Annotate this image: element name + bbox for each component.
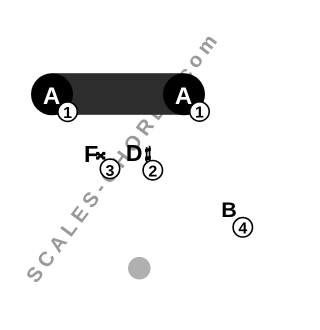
note circle A (right) <box>163 73 205 115</box>
sharp sign <box>145 146 151 163</box>
svg-text:1: 1 <box>195 105 204 122</box>
finger badge 2 <box>143 161 162 181</box>
note circle A (left) <box>31 73 73 115</box>
double sharp symbol (x) <box>96 152 105 160</box>
svg-text:D: D <box>126 140 143 166</box>
barre bar fret 1 <box>52 73 184 115</box>
svg-text:3: 3 <box>106 163 115 180</box>
svg-text:A: A <box>43 83 60 110</box>
finger badge 3 <box>100 159 119 180</box>
svg-text:4: 4 <box>238 221 247 238</box>
guitar chord diagram <box>0 0 255 330</box>
finger badge 4 <box>233 218 252 238</box>
svg-text:1: 1 <box>63 105 72 122</box>
svg-text:2: 2 <box>148 163 157 180</box>
finger badge 1 left <box>58 102 77 122</box>
svg-text:A: A <box>175 83 192 110</box>
finger badge 1 right <box>190 102 209 122</box>
svg-text:B: B <box>221 198 237 222</box>
fretboard inlay dot <box>128 257 151 280</box>
